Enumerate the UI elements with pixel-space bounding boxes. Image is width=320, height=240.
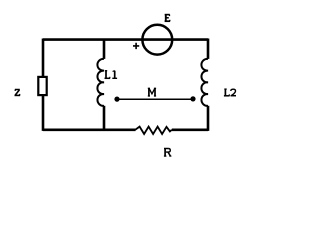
label R xyxy=(164,148,172,156)
wire middle upper xyxy=(103,39,106,59)
label Z xyxy=(15,90,21,96)
dot left xyxy=(114,97,119,102)
voltage source E xyxy=(142,25,172,55)
label M xyxy=(148,88,156,96)
inductor L1 xyxy=(97,59,104,106)
wire right upper xyxy=(207,39,210,59)
inductor L2 xyxy=(201,59,208,106)
label L1 xyxy=(105,71,118,79)
mutual coupling line M xyxy=(117,98,193,100)
resistor R xyxy=(135,127,172,134)
impedance Z xyxy=(38,77,46,95)
label E xyxy=(165,14,171,21)
wire bottom left segment xyxy=(43,129,136,132)
wire middle lower xyxy=(103,106,106,131)
wire left upper xyxy=(42,39,45,77)
label L2 xyxy=(224,89,236,96)
dot right xyxy=(190,96,195,101)
wire bottom right segment xyxy=(172,129,208,132)
wire left lower xyxy=(42,96,45,131)
wire top xyxy=(43,38,208,41)
polarity plus xyxy=(133,43,139,49)
wire right lower xyxy=(207,106,210,131)
